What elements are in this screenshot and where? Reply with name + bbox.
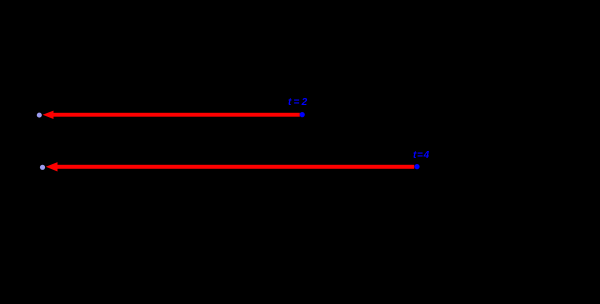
wire: velocity arrow shaft (top, t=2) xyxy=(52,113,300,117)
svg-text:t=2: t=2 xyxy=(288,97,309,108)
svg-text:t=4: t=4 xyxy=(413,150,430,161)
arrowhead (top arrow, pointing left) xyxy=(43,111,54,119)
node: start position dot (bottom right, blue) xyxy=(414,164,419,169)
node: start position dot (top right, blue) xyxy=(300,112,305,117)
node: final position dot (top left, lavender) xyxy=(37,113,42,118)
node: final position dot (bottom left, lavender) xyxy=(40,165,45,170)
arrowhead (bottom arrow, pointing left) xyxy=(46,162,58,171)
wire: velocity arrow shaft (bottom, t=4) xyxy=(56,165,414,169)
